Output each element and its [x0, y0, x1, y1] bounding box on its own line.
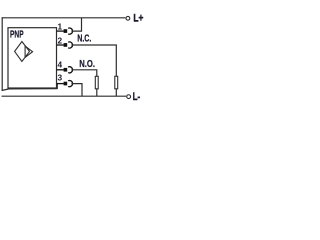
svg-text:4: 4 — [58, 59, 63, 69]
load resistor 1 (N.O. load) — [95, 76, 98, 89]
svg-text:PNP: PNP — [10, 30, 24, 41]
svg-text:L-: L- — [133, 91, 141, 103]
wire pin 3 to L- rail — [71, 84, 82, 97]
wire load 2 tail to L- rail — [115, 89, 117, 96]
svg-text:N.C.: N.C. — [77, 34, 91, 45]
svg-text:1: 1 — [58, 22, 63, 32]
pin 1 connector socket arc — [68, 28, 72, 34]
load resistor 2 (N.C. load) — [115, 76, 118, 89]
terminal circle L+ — [126, 16, 130, 20]
pin 3 stub — [57, 83, 64, 85]
pin 1 connector square — [64, 29, 68, 33]
terminal circle L- — [127, 95, 131, 99]
sensor box outline — [8, 28, 57, 88]
wire pin 4 (N.O.) to load 1 — [71, 70, 96, 77]
svg-text:N.O.: N.O. — [79, 59, 95, 70]
wire load 1 tail to L- rail — [96, 89, 98, 96]
sensor symbol rhombus — [15, 42, 30, 62]
pin 4 stub — [57, 69, 64, 71]
pin 2 connector square — [64, 43, 68, 47]
pin 4 connector socket arc — [68, 67, 72, 73]
wire bottom L- rail — [2, 95, 127, 97]
svg-text:2: 2 — [58, 36, 63, 46]
pin 2 connector socket arc — [68, 42, 72, 48]
pin 3 connector socket arc — [68, 81, 72, 87]
wire bottom wrap segment to pin 3 stub — [2, 89, 58, 91]
pin 1 stub — [57, 30, 64, 32]
wire pin 2 (N.C.) to load 2 — [71, 45, 116, 76]
wire top L+ rail — [2, 17, 126, 19]
wire riser joining pin 3 stub — [56, 84, 58, 89]
wire left vertical (wrap-around from L+ rail) — [1, 17, 3, 91]
svg-text:3: 3 — [58, 72, 63, 82]
wire pin 1 to L+ rail — [71, 18, 81, 31]
pin 2 stub — [57, 44, 64, 46]
pin 4 connector square — [64, 68, 68, 72]
sensor symbol triangle — [25, 46, 32, 57]
pin 3 connector square — [64, 82, 68, 86]
svg-text:L+: L+ — [133, 13, 143, 25]
